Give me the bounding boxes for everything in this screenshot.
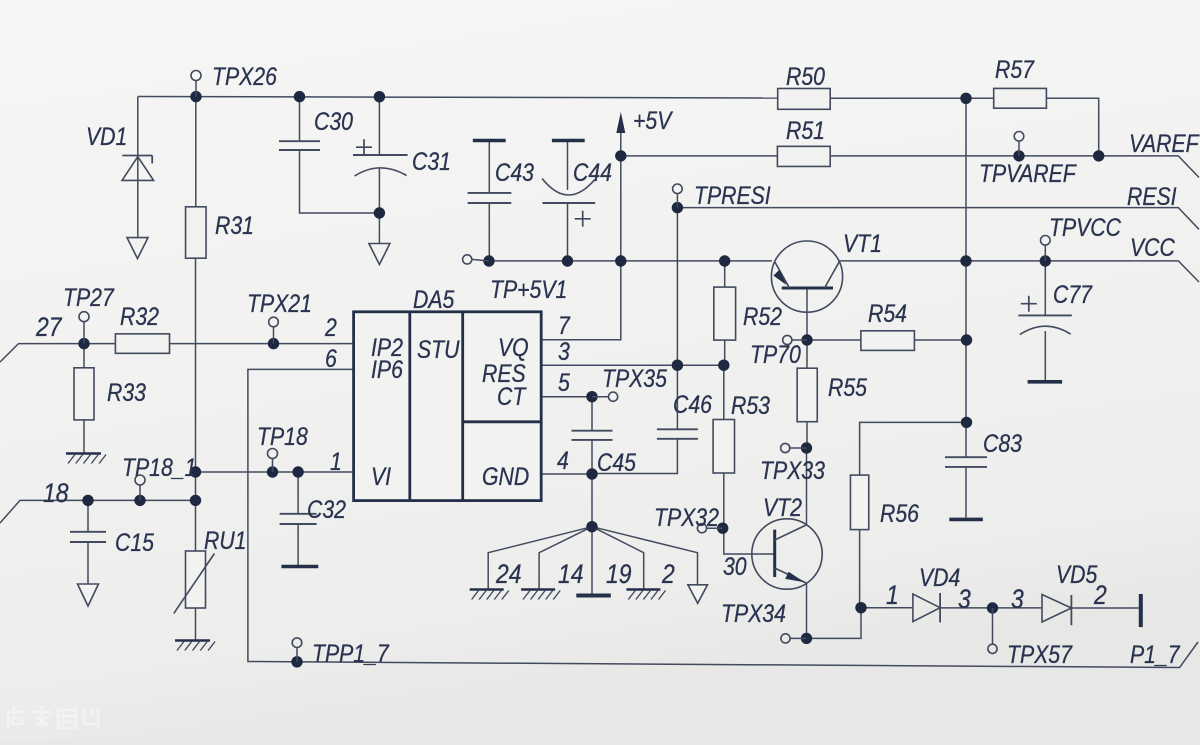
node VCC trunk <box>960 255 971 266</box>
ground below RU1 <box>175 641 215 651</box>
svg-text:RESI: RESI <box>1127 182 1177 210</box>
svg-text:+5V: +5V <box>633 106 674 134</box>
svg-text:R50: R50 <box>786 62 825 90</box>
wire top rail TPX26 net <box>138 97 778 99</box>
test point TP18 <box>268 449 278 473</box>
node C44 bottom <box>562 255 573 266</box>
wire C43 lead upper <box>488 141 490 193</box>
test point TPX32 <box>697 524 722 533</box>
terminal bar P1_7 <box>1139 594 1143 627</box>
svg-text:14: 14 <box>558 559 584 589</box>
resistor R53 <box>713 420 734 474</box>
wire R31 column lower long <box>195 258 197 551</box>
wire VT2 emitter vertical <box>806 583 808 638</box>
svg-text:C31: C31 <box>412 147 451 175</box>
wire R52 lower lead <box>724 340 726 365</box>
node R54 right <box>961 334 972 345</box>
svg-text:C43: C43 <box>495 158 534 186</box>
node TPX26 <box>190 91 201 102</box>
resistor R31 <box>186 207 207 258</box>
svg-text:TPX26: TPX26 <box>212 62 277 90</box>
svg-text:2: 2 <box>1093 580 1107 610</box>
diode VD5 <box>1042 595 1071 626</box>
svg-text:TP27: TP27 <box>63 283 115 311</box>
svg-text:R53: R53 <box>731 391 770 419</box>
svg-text:2: 2 <box>324 313 337 341</box>
svg-text:DA5: DA5 <box>413 285 454 313</box>
svg-text:TPX21: TPX21 <box>247 289 312 317</box>
node TP18_1 <box>134 495 145 506</box>
svg-text:R55: R55 <box>828 373 867 401</box>
node TP18 <box>267 466 278 477</box>
capacitor C45 <box>572 431 613 440</box>
node pin3 C46 <box>672 360 683 371</box>
varistor RU1 <box>174 551 215 613</box>
svg-text:5: 5 <box>558 368 570 396</box>
transistor VT1 <box>771 241 842 312</box>
wire VD5 to terminal <box>1071 607 1139 609</box>
svg-text:C30: C30 <box>314 107 353 135</box>
svg-text:27: 27 <box>35 312 62 342</box>
ground below R33 <box>66 454 106 464</box>
test point TP+5V1 <box>463 255 489 264</box>
svg-text:TPP1_7: TPP1_7 <box>312 639 390 667</box>
open arrow below C31 <box>369 244 390 265</box>
test point TPX34 <box>781 634 807 643</box>
capacitor C44 electrolytic <box>542 141 595 227</box>
node TPX57 <box>987 602 998 613</box>
node R50-R57 <box>960 93 971 104</box>
svg-text:VQ: VQ <box>498 333 529 361</box>
wire C46 lead upper <box>676 365 678 429</box>
wire C30 lead upper <box>299 97 301 142</box>
wire +5V vertical to pin 7 <box>542 131 621 340</box>
test point TP27 <box>79 312 89 344</box>
wire RESI rail <box>677 208 1199 230</box>
wire C15 upper lead <box>87 500 89 531</box>
svg-text:TP70: TP70 <box>750 340 801 368</box>
node TPVCC <box>1040 255 1051 266</box>
svg-text:P1_7: P1_7 <box>1130 640 1181 668</box>
wire pin 6 to bottom rail <box>248 369 1198 667</box>
wire R33 upper lead <box>83 344 85 368</box>
resistor R57 <box>994 88 1047 108</box>
wire R32 to pin 2 <box>170 343 354 345</box>
node C45 bottom <box>586 468 597 479</box>
node RU1 top <box>190 495 201 506</box>
svg-text:TP18: TP18 <box>257 422 308 450</box>
wire C31 lead upper <box>378 97 380 155</box>
node pin5 C45 <box>586 391 597 402</box>
wire node to VD4 <box>861 607 913 609</box>
node TPP1_7 <box>291 656 302 667</box>
capacitor C46 <box>657 429 698 439</box>
spider wire to ground 19 <box>591 527 593 595</box>
ground 2 <box>626 590 665 600</box>
svg-text:VAREF: VAREF <box>1129 129 1200 157</box>
resistor R32 <box>115 334 169 354</box>
wire R55 lower lead <box>806 422 808 448</box>
svg-text:R51: R51 <box>786 116 825 144</box>
ground bar below C77 <box>1028 380 1063 384</box>
svg-text:C45: C45 <box>597 448 636 476</box>
wire R31 column upper <box>195 97 197 207</box>
test point TPVAREF <box>1014 132 1024 156</box>
node spider <box>586 521 597 532</box>
wire VCC rail right of VT1 <box>840 261 1200 282</box>
svg-text:4: 4 <box>557 446 569 474</box>
resistor R50 <box>778 89 831 110</box>
svg-text:1: 1 <box>886 580 899 610</box>
wire VT1 base lead <box>806 289 808 340</box>
svg-text:R32: R32 <box>120 302 159 330</box>
svg-text:19: 19 <box>606 559 632 589</box>
wire 18 entry <box>0 500 196 523</box>
node TPX32 <box>717 523 728 534</box>
test point TPX26 <box>191 71 201 97</box>
node R56 bottom <box>855 602 866 613</box>
test point TPVCC <box>1041 236 1051 262</box>
svg-text:R33: R33 <box>107 378 146 406</box>
node TPX21 <box>268 338 279 349</box>
wire pin 5 stub <box>542 396 592 398</box>
transistor VT2 <box>752 519 822 589</box>
wire 27 entry diagonal <box>0 344 115 362</box>
wire C31 lead lower <box>378 168 380 244</box>
wire VD1 to arrow <box>137 156 139 238</box>
node R52 R53 <box>718 360 729 371</box>
wire R54 stub right <box>914 339 966 341</box>
ground 14 <box>521 590 560 600</box>
capacitor C31 electrolytic <box>353 139 408 176</box>
svg-text:TP18_1: TP18_1 <box>122 453 196 481</box>
resistor R54 <box>861 331 915 351</box>
ground bar below C32 <box>281 565 318 569</box>
wire C32 lower lead <box>297 524 299 565</box>
ground 24 <box>470 590 509 600</box>
wire C77 upper lead <box>1044 261 1046 316</box>
node TP70 <box>801 334 812 345</box>
node C32 top <box>292 466 303 477</box>
node R57 corner <box>1093 150 1104 161</box>
svg-text:GND: GND <box>482 462 529 490</box>
svg-text:1: 1 <box>330 447 342 475</box>
svg-text:TPVAREF: TPVAREF <box>979 159 1077 187</box>
diode VD1 zener <box>122 156 154 181</box>
svg-text:TPX32: TPX32 <box>654 503 719 531</box>
svg-text:24: 24 <box>495 559 521 589</box>
spider wire to ground 2 <box>592 527 644 590</box>
svg-text:RU1: RU1 <box>204 526 246 554</box>
resistor R56 <box>850 475 868 529</box>
wire R57 to corner down to VAREF <box>1046 98 1098 156</box>
svg-text:3: 3 <box>1011 584 1024 614</box>
test point TP18_1 <box>135 475 145 500</box>
node R31 pin1 <box>190 466 201 477</box>
svg-text:VD5: VD5 <box>1056 560 1097 588</box>
node TPRESI <box>672 202 683 213</box>
node R52 top <box>719 255 730 266</box>
wire R55 upper lead <box>806 340 808 368</box>
node TPVAREF <box>1013 150 1024 161</box>
svg-text:TPX35: TPX35 <box>602 364 667 392</box>
wire R56 lower lead <box>859 530 861 608</box>
open arrow right of spider <box>688 585 708 604</box>
op-amp IC DA5 box <box>354 312 542 501</box>
wire pin 3 net <box>542 364 724 366</box>
wire TPX34 to R56 node <box>807 608 862 639</box>
svg-text:VI: VI <box>371 462 392 490</box>
wire R52 upper lead <box>724 261 726 287</box>
test point TPP1_7 <box>292 638 302 662</box>
svg-text:3: 3 <box>558 337 570 365</box>
wire C83 lower lead <box>965 467 967 518</box>
capacitor C15 <box>70 532 106 542</box>
resistor R51 <box>777 146 830 166</box>
svg-text:C44: C44 <box>573 158 612 186</box>
svg-text:VT2: VT2 <box>763 493 802 521</box>
test point TPX35 <box>592 392 618 401</box>
test point TP70 <box>783 335 807 344</box>
svg-text:TPX34: TPX34 <box>721 599 786 627</box>
resistor R33 <box>74 368 94 420</box>
wire R51 rail <box>621 155 778 157</box>
svg-text:R52: R52 <box>743 302 782 330</box>
wire C30 lead lower and link to C31 <box>300 150 380 213</box>
wire +5V rail horizontal <box>489 260 772 262</box>
wire C45 to spider junction <box>591 474 593 527</box>
open arrow below C15 <box>78 584 99 606</box>
test point TPX57 <box>988 608 997 653</box>
+5V arrow <box>616 112 625 133</box>
node C31 bottom <box>374 207 385 218</box>
wire C77 lower lead <box>1044 331 1046 380</box>
wire RU1 lower lead <box>195 608 197 641</box>
open arrow below VD1 <box>127 238 148 259</box>
wire C43 lead lower <box>488 203 490 261</box>
wire pin 4 stub <box>542 473 592 475</box>
svg-text:R54: R54 <box>868 299 907 327</box>
node C15 <box>82 495 93 506</box>
svg-text:IP6: IP6 <box>371 355 403 383</box>
svg-text:R31: R31 <box>215 211 254 239</box>
ground bar 19 <box>576 594 611 598</box>
node TPX34 <box>801 633 812 644</box>
wire R50 to R57 junction <box>830 97 994 99</box>
node C31 top <box>374 91 385 102</box>
node R56 top wire <box>961 417 972 428</box>
spider wire to ground 14 <box>539 527 592 590</box>
wire R54 stub left <box>807 339 861 341</box>
node TP27 <box>78 338 89 349</box>
wire C15 lower lead <box>87 542 89 584</box>
wire C44 lead lower <box>567 203 569 261</box>
wire C46 lead lower to C45 <box>592 439 677 474</box>
spider wire to ground 24 <box>488 527 592 590</box>
wire TPRESI vertical <box>676 208 678 366</box>
svg-text:TPRESI: TPRESI <box>694 181 771 209</box>
test point TPX33 <box>781 443 807 452</box>
wire VD1 branch vertical <box>137 97 139 156</box>
svg-text:VT1: VT1 <box>843 229 882 257</box>
wire R56 upper lead <box>860 422 967 475</box>
wire pin 1 net <box>196 471 354 473</box>
wire R53 to VT2 base <box>724 473 775 554</box>
svg-text:STU: STU <box>417 335 460 363</box>
spider wire to open arrow <box>592 527 698 585</box>
capacitor C43 <box>468 141 512 204</box>
node C30 top <box>294 91 305 102</box>
svg-text:30: 30 <box>723 552 747 580</box>
wire C45 lead lower <box>591 440 593 474</box>
svg-text:18: 18 <box>43 478 69 508</box>
wire R33 lower lead <box>83 420 85 454</box>
svg-text:C83: C83 <box>983 429 1022 457</box>
svg-text:VD4: VD4 <box>919 563 960 591</box>
svg-text:TPX57: TPX57 <box>1007 640 1073 668</box>
wire VD4 to TPX57 node <box>940 607 1042 609</box>
svg-text:C32: C32 <box>307 495 346 523</box>
wire VT2 collector vertical <box>806 448 808 525</box>
wire C32 lead <box>297 472 299 514</box>
wire R53 upper lead <box>723 365 725 419</box>
svg-text:C46: C46 <box>673 390 712 418</box>
svg-text:VD1: VD1 <box>86 122 127 150</box>
node +5V rail <box>615 255 626 266</box>
capacitor C77 electrolytic <box>1018 296 1071 335</box>
svg-text:6: 6 <box>325 344 337 372</box>
svg-text:R56: R56 <box>880 499 919 527</box>
node TPX33 <box>801 442 812 453</box>
node +5V R51 <box>615 150 626 161</box>
resistor R52 <box>714 287 736 340</box>
svg-text:2: 2 <box>661 559 675 589</box>
node C43 bottom <box>483 255 494 266</box>
wire R50 R57 vertical trunk <box>965 98 967 457</box>
capacitor C83 <box>945 457 987 467</box>
capacitor C32 <box>280 514 317 524</box>
ground bar below C83 <box>949 518 983 522</box>
test point TPRESI <box>673 184 683 208</box>
wire C44 lead upper <box>567 141 569 191</box>
svg-text:C15: C15 <box>115 528 154 556</box>
svg-text:3: 3 <box>958 584 971 614</box>
wire VAREF rail <box>830 156 1199 178</box>
watermark <box>8 706 98 729</box>
svg-text:CT: CT <box>497 382 527 410</box>
test point TPX21 <box>269 317 279 343</box>
svg-text:TP+5V1: TP+5V1 <box>490 275 567 303</box>
svg-text:7: 7 <box>558 311 571 339</box>
svg-text:TPVCC: TPVCC <box>1049 213 1121 241</box>
capacitor C30 <box>279 141 320 150</box>
svg-text:R57: R57 <box>995 55 1035 83</box>
svg-text:TPX33: TPX33 <box>760 456 825 484</box>
resistor R55 <box>797 368 817 422</box>
svg-text:VCC: VCC <box>1130 233 1175 261</box>
diode VD4 <box>913 593 940 623</box>
svg-text:C77: C77 <box>1053 280 1093 308</box>
wire C45 lead upper <box>591 397 593 431</box>
